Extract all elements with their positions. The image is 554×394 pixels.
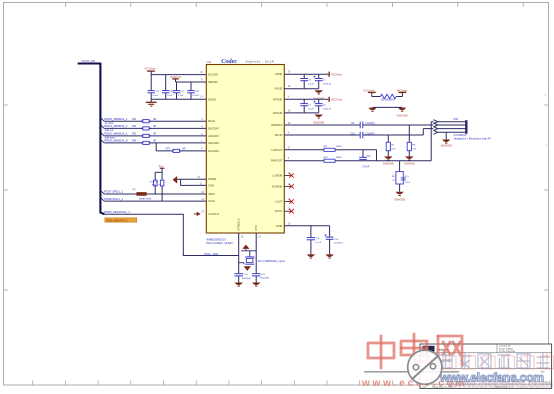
svg-text:SCLK: SCLK <box>208 199 215 203</box>
svg-text:0.47uF: 0.47uF <box>193 95 200 97</box>
svg-text:PD09_MMGPIO1_1: PD09_MMGPIO1_1 <box>104 210 130 214</box>
svg-text:R15 4.7k: R15 4.7k <box>150 181 160 183</box>
svg-text:680R: 680R <box>336 146 342 148</box>
svg-text:10uF(-P): 10uF(-P) <box>323 83 332 85</box>
svg-text:www.elecfans.com: www.elecfans.com <box>439 371 544 385</box>
svg-text:SCJ-4 48MHz(Mic_Input): SCJ-4 48MHz(Mic_Input) <box>258 260 285 263</box>
svg-text:GNAGND: GNAGND <box>397 114 408 117</box>
svg-text:DCVDD: DCVDD <box>208 73 218 77</box>
svg-text:R77: R77 <box>166 148 171 150</box>
svg-text:Mono CODEC, QFN32: Mono CODEC, QFN32 <box>206 241 233 245</box>
svg-text:56(22pF): 56(22pF) <box>242 278 251 280</box>
svg-text:GNAGND: GNAGND <box>313 122 324 125</box>
svg-text:SDIN: SDIN <box>208 192 214 196</box>
svg-text:MICIN: MICIN <box>275 133 283 137</box>
svg-text:0.1uF: 0.1uF <box>316 242 322 244</box>
svg-text:Cust.spec.file: Cust.spec.file <box>499 345 510 348</box>
svg-text:10uF(-P): 10uF(-P) <box>334 243 343 245</box>
svg-text:LT P/N: 1541-2234: LT P/N: 1541-2234 <box>499 351 515 353</box>
svg-text:U10: U10 <box>207 61 212 64</box>
svg-text:DBVDD: DBVDD <box>208 80 217 84</box>
svg-text:Codec: Codec <box>221 58 237 65</box>
svg-text:R16 4.7k: R16 4.7k <box>152 185 162 187</box>
svg-text:Address : 0x1A: Address : 0x1A <box>246 60 275 64</box>
svg-text:CN6: CN6 <box>453 118 459 121</box>
svg-text:R33: R33 <box>132 134 137 136</box>
svg-text:PDN0_MMSDA_1: PDN0_MMSDA_1 <box>104 117 128 121</box>
svg-text:ADCLRC: ADCLRC <box>208 141 219 145</box>
svg-text:XTAL_12M: XTAL_12M <box>204 252 219 256</box>
svg-text:0.1uF: 0.1uF <box>308 83 314 85</box>
svg-text:MICBIAS: MICBIAS <box>271 123 282 127</box>
svg-text:ROUT: ROUT <box>275 209 283 213</box>
svg-text:GNAGND: GNAGND <box>394 198 405 201</box>
svg-text:AGND: AGND <box>275 87 283 91</box>
svg-text:MODE: MODE <box>208 177 216 181</box>
svg-text:0R: 0R <box>153 126 156 128</box>
svg-text:LLINEIN: LLINEIN <box>272 174 282 178</box>
svg-text:RLINEIN: RLINEIN <box>272 184 283 188</box>
svg-text:0.1uF: 0.1uF <box>178 95 184 97</box>
svg-text:(small omit): (small omit) <box>139 197 152 200</box>
svg-text:CLKOUT: CLKOUT <box>208 212 219 216</box>
svg-text:R32: R32 <box>132 126 137 128</box>
svg-text:Headphone + Microphone Jack 4P: Headphone + Microphone Jack 4P <box>454 137 491 140</box>
svg-text:GNAGND: GNAGND <box>383 163 394 166</box>
svg-text:10uF(-P): 10uF(-P) <box>323 108 332 110</box>
svg-text:ADCDAT: ADCDAT <box>208 134 219 138</box>
svg-text:VCCVmm: VCCVmm <box>331 73 342 76</box>
svg-text:DACLRC: DACLRC <box>208 149 219 153</box>
svg-text:XTI/MCLK: XTI/MCLK <box>237 218 241 231</box>
svg-text:2.2uF: 2.2uF <box>405 182 411 184</box>
svg-text:VCCVmm: VCCVmm <box>145 68 156 71</box>
svg-text:C10: C10 <box>350 133 355 135</box>
svg-text:WM8510/8523LV: WM8510/8523LV <box>206 237 226 241</box>
svg-text:PDN2_MMSDA_1: PDN2_MMSDA_1 <box>104 132 128 136</box>
svg-text:0R: 0R <box>153 119 156 121</box>
svg-text:0.1uF: 0.1uF <box>308 108 314 110</box>
svg-text:1.0uF(P): 1.0uF(P) <box>365 122 375 125</box>
svg-text:DACDAT: DACDAT <box>208 126 219 130</box>
svg-text:GNAGND: GNAGND <box>441 144 452 147</box>
svg-text:PDN1_MMSDA_1: PDN1_MMSDA_1 <box>104 124 128 128</box>
svg-text:VMID: VMID <box>276 224 283 228</box>
svg-text:HPVDD: HPVDD <box>273 97 282 101</box>
svg-text:0.1uF: 0.1uF <box>167 95 173 97</box>
svg-text:680R: 680R <box>336 157 342 159</box>
svg-text:PDN3_MMSDA_0: PDN3_MMSDA_0 <box>104 139 128 143</box>
svg-text:CSB: CSB <box>208 183 214 187</box>
svg-text:RHPOUT: RHPOUT <box>271 159 283 163</box>
svg-text:0.1uF: 0.1uF <box>153 95 159 97</box>
svg-text:BCLK: BCLK <box>208 119 215 123</box>
svg-text:56(22pF): 56(22pF) <box>260 277 269 279</box>
svg-text:PD09_MMGPIO2_1: PD09_MMGPIO2_1 <box>106 219 129 222</box>
svg-text:B: B <box>545 93 547 97</box>
svg-text:XTO: XTO <box>254 225 258 230</box>
svg-text:PD07 SPD1_1: PD07 SPD1_1 <box>104 190 123 194</box>
svg-text:B-Toler. Drb/Mon: B-Toler. Drb/Mon <box>499 347 513 350</box>
svg-text:LHPOUT: LHPOUT <box>271 148 282 152</box>
svg-text:GNAGND: GNAGND <box>404 163 415 166</box>
svg-text:R34: R34 <box>132 141 137 143</box>
svg-text:VCCCmm: VCCCmm <box>331 98 342 101</box>
svg-text:C11: C11 <box>367 156 372 158</box>
svg-text:HPGND: HPGND <box>273 111 283 115</box>
svg-text:DGND: DGND <box>208 97 216 101</box>
svg-text:0.47uF: 0.47uF <box>362 166 370 168</box>
svg-text:LOUT: LOUT <box>275 200 283 204</box>
svg-text:0R: 0R <box>153 134 156 136</box>
svg-text:R31: R31 <box>132 119 137 121</box>
svg-text:R2 MICBIAS: R2 MICBIAS <box>381 98 395 101</box>
svg-text:PD08 SCK1_1: PD08 SCK1_1 <box>104 197 123 201</box>
svg-text:0R: 0R <box>182 148 185 150</box>
svg-text:AVDD: AVDD <box>275 72 282 76</box>
svg-text:0R: 0R <box>153 141 156 143</box>
